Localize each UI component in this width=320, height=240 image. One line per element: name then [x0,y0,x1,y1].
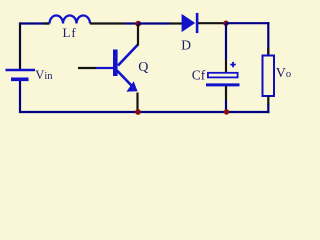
wire right vertical upper (to load box) [267,22,269,55]
capacitor Cf plus polarity mark [230,62,235,67]
battery Vin [6,70,36,79]
wire Cf bottom lead to bottom rail [225,86,227,112]
load resistor box Vo [263,56,275,97]
node A junction dot (Lf / Q collector / D anode) [135,21,141,27]
diode D [182,13,198,33]
capacitor Cf [206,73,240,85]
svg-text:Vin: Vin [35,68,53,82]
node B junction dot (D cathode / Cf / load) [223,21,228,26]
svg-text:Q: Q [138,60,148,75]
wire diode cathode to node B [198,22,226,24]
wire left vertical (Vin positive lead) [19,22,21,69]
wire Q emitter stub (to bottom rail) [136,93,138,113]
svg-text:Vo: Vo [276,66,291,81]
inductor Lf [50,16,91,24]
wire node B to Cf (capacitor top lead) [225,23,227,73]
wire top-left horizontal (node from Vin+ to Lf) [20,22,50,24]
wire node B to load (top right) [226,22,269,24]
junction dot bottom (Cf / bottom rail) [224,109,229,114]
svg-text:Lf: Lf [63,25,77,40]
transistor Q base lead wire [78,67,113,69]
svg-text:Cf: Cf [192,67,206,82]
wire node A to diode anode [138,22,182,24]
junction dot bottom (Q emitter / bottom rail) [135,109,141,115]
svg-text:D: D [181,37,191,52]
wire left vertical lower (Vin negative lead) [19,81,21,113]
wire bottom rail [20,111,269,113]
wire top middle (Lf to node A) [90,22,138,24]
wire Q collector stub (to node A) [137,24,139,46]
transistor Q [115,45,138,92]
wire right vertical lower (load to bottom rail) [267,96,269,113]
